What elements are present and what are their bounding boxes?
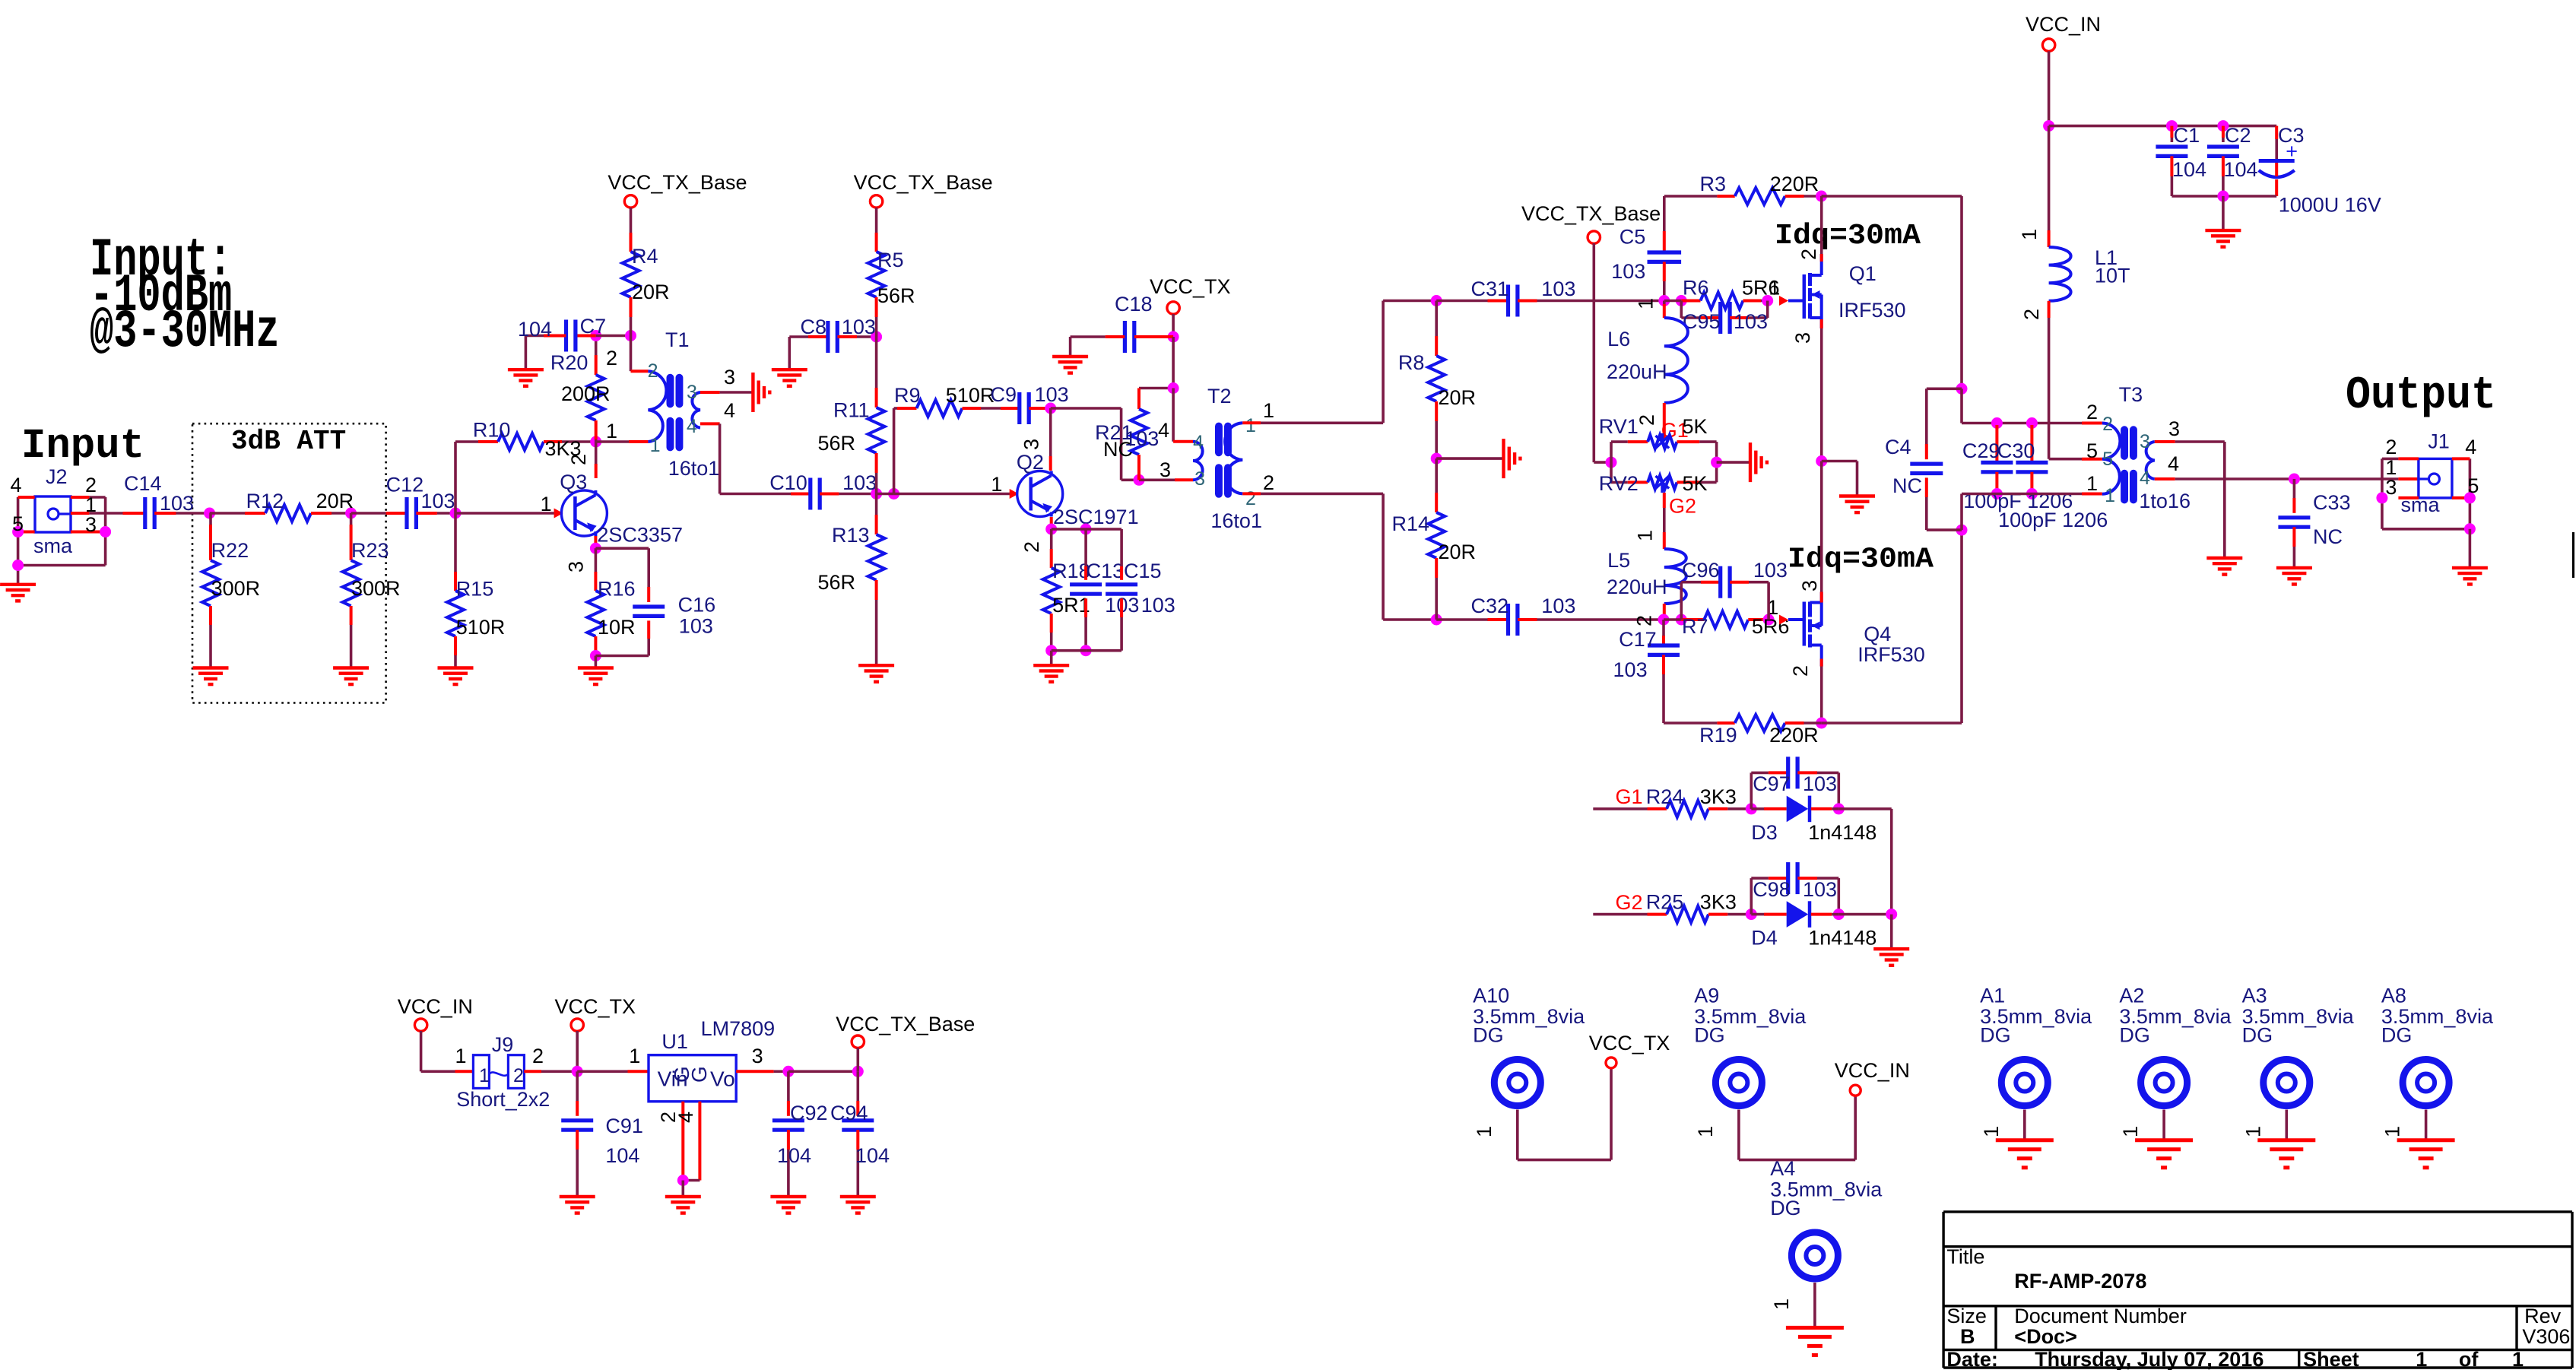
svg-text:T3: T3 [2119, 383, 2143, 406]
svg-text:RV1: RV1 [1599, 415, 1639, 438]
svg-text:J9: J9 [492, 1033, 514, 1056]
svg-text:Idq=30mA: Idq=30mA [1775, 220, 1921, 252]
svg-text:R16: R16 [598, 578, 636, 601]
svg-text:1: 1 [2381, 1126, 2404, 1137]
svg-text:1: 1 [1635, 298, 1658, 309]
svg-text:VCC_TX: VCC_TX [1150, 275, 1231, 298]
svg-text:G2: G2 [1616, 891, 1643, 914]
svg-text:300R: 300R [351, 577, 401, 600]
svg-text:1: 1 [2512, 1348, 2524, 1370]
svg-text:1: 1 [2105, 485, 2115, 506]
svg-text:2: 2 [648, 360, 658, 382]
svg-text:220uH: 220uH [1607, 576, 1667, 598]
svg-text:C15: C15 [1124, 560, 1162, 582]
svg-text:56R: 56R [877, 284, 915, 307]
svg-text:2SC3357: 2SC3357 [597, 523, 683, 546]
svg-text:1: 1 [1980, 1126, 2003, 1137]
svg-text:1: 1 [1263, 399, 1274, 422]
svg-text:C8: C8 [800, 316, 826, 338]
svg-text:103: 103 [1734, 310, 1768, 333]
svg-text:100pF 1206: 100pF 1206 [1998, 509, 2108, 531]
svg-text:4: 4 [1158, 419, 1169, 442]
svg-text:16to1: 16to1 [1210, 509, 1262, 532]
svg-text:103: 103 [1611, 260, 1645, 283]
svg-text:G: G [687, 1066, 711, 1083]
svg-text:5: 5 [2102, 449, 2113, 470]
svg-text:R24: R24 [1646, 785, 1684, 808]
svg-text:1: 1 [1633, 530, 1656, 541]
svg-text:R10: R10 [473, 419, 511, 442]
svg-text:A9: A9 [1694, 985, 1719, 1007]
svg-text:R8: R8 [1398, 351, 1425, 374]
svg-text:VCC_TX: VCC_TX [1589, 1032, 1670, 1054]
svg-text:103: 103 [1613, 658, 1648, 681]
svg-text:R4: R4 [632, 245, 658, 268]
svg-text:1: 1 [629, 1045, 640, 1067]
svg-text:510R: 510R [946, 384, 995, 407]
svg-text:2: 2 [1789, 665, 1812, 677]
svg-text:C16: C16 [678, 594, 716, 617]
svg-text:4: 4 [10, 474, 21, 496]
svg-text:C32: C32 [1471, 595, 1509, 617]
svg-text:C31: C31 [1471, 277, 1509, 300]
svg-text:4: 4 [674, 1112, 697, 1123]
svg-text:@3-30MHz: @3-30MHz [90, 301, 280, 363]
svg-text:A1: A1 [1980, 985, 2005, 1007]
svg-text:VCC_IN: VCC_IN [398, 995, 473, 1018]
svg-text:104: 104 [777, 1144, 811, 1167]
svg-text:J2: J2 [46, 465, 68, 488]
svg-text:VCC_IN: VCC_IN [2026, 13, 2101, 36]
svg-text:20R: 20R [1439, 386, 1477, 409]
svg-text:LM7809: LM7809 [701, 1017, 776, 1040]
svg-text:Size: Size [1946, 1305, 1987, 1327]
svg-text:3: 3 [1020, 439, 1043, 450]
svg-text:220uH: 220uH [1607, 360, 1667, 383]
svg-text:Output: Output [2346, 370, 2496, 422]
svg-text:4: 4 [1193, 432, 1204, 453]
svg-text:104: 104 [2224, 158, 2258, 181]
svg-text:4: 4 [2168, 452, 2179, 475]
svg-text:T1: T1 [665, 328, 690, 351]
svg-text:300R: 300R [211, 577, 261, 600]
svg-text:T2: T2 [1207, 385, 1232, 408]
svg-text:Q1: Q1 [1849, 262, 1876, 285]
svg-text:G2: G2 [1669, 495, 1696, 518]
svg-text:103: 103 [1125, 427, 1159, 450]
svg-text:103: 103 [1141, 594, 1175, 617]
svg-text:103: 103 [1803, 772, 1837, 795]
svg-text:20R: 20R [632, 281, 670, 303]
svg-text:3: 3 [2168, 417, 2180, 440]
svg-text:A4: A4 [1770, 1157, 1795, 1180]
svg-text:A10: A10 [1473, 985, 1509, 1007]
svg-text:1: 1 [2416, 1348, 2427, 1370]
svg-text:3: 3 [85, 513, 97, 536]
svg-text:103: 103 [421, 490, 455, 512]
svg-text:3K3: 3K3 [1700, 891, 1737, 914]
svg-text:VCC_TX_Base: VCC_TX_Base [1521, 202, 1661, 225]
svg-text:3: 3 [724, 366, 735, 388]
svg-text:2: 2 [1797, 249, 1820, 260]
svg-text:5: 5 [2467, 474, 2479, 497]
svg-text:C94: C94 [830, 1102, 868, 1124]
svg-text:R7: R7 [1682, 615, 1708, 638]
svg-text:1000U 16V: 1000U 16V [2279, 194, 2381, 217]
svg-text:C9: C9 [990, 383, 1017, 406]
svg-text:Short_2x2: Short_2x2 [456, 1088, 550, 1111]
svg-text:R23: R23 [351, 539, 389, 562]
svg-text:2: 2 [532, 1045, 544, 1067]
svg-text:C30: C30 [1997, 439, 2035, 462]
svg-text:NC: NC [1892, 474, 1922, 497]
svg-text:10T: 10T [2095, 265, 2130, 287]
svg-text:3: 3 [1798, 580, 1821, 591]
svg-text:R5: R5 [877, 249, 904, 271]
svg-text:1: 1 [991, 473, 1002, 496]
svg-text:2: 2 [567, 454, 590, 465]
svg-text:200R: 200R [561, 382, 611, 405]
svg-text:1: 1 [541, 493, 552, 515]
svg-text:J1: J1 [2428, 430, 2450, 453]
svg-text:NC: NC [2313, 525, 2343, 548]
svg-text:103: 103 [679, 615, 713, 638]
svg-text:2SC1971: 2SC1971 [1053, 506, 1139, 528]
svg-text:C4: C4 [1885, 436, 1911, 458]
svg-text:103: 103 [1803, 878, 1837, 901]
svg-text:Title: Title [1946, 1245, 1984, 1268]
svg-text:3: 3 [687, 382, 697, 403]
svg-text:4: 4 [2465, 436, 2476, 458]
svg-text:Rev: Rev [2524, 1305, 2562, 1327]
svg-text:DG: DG [2119, 1024, 2150, 1047]
svg-text:A3: A3 [2242, 985, 2267, 1007]
svg-text:B: B [1960, 1325, 1975, 1348]
svg-text:1n4148: 1n4148 [1808, 821, 1876, 844]
svg-text:1: 1 [2119, 1126, 2142, 1137]
svg-text:1: 1 [2241, 1126, 2264, 1137]
svg-text:VCC_TX_Base: VCC_TX_Base [836, 1013, 975, 1035]
svg-text:RV2: RV2 [1599, 472, 1639, 495]
svg-text:R9: R9 [894, 384, 921, 407]
svg-text:C98: C98 [1753, 878, 1791, 901]
svg-text:DG: DG [1473, 1024, 1504, 1047]
svg-text:3: 3 [2385, 476, 2397, 499]
svg-text:R22: R22 [211, 539, 249, 562]
svg-text:DG: DG [1770, 1197, 1801, 1219]
svg-text:VCC_TX_Base: VCC_TX_Base [608, 171, 747, 194]
svg-text:220R: 220R [1769, 724, 1819, 747]
svg-text:2: 2 [1633, 615, 1656, 626]
svg-text:1: 1 [1694, 1126, 1717, 1137]
svg-text:103: 103 [842, 316, 876, 338]
svg-text:2: 2 [2102, 414, 2113, 435]
svg-text:3: 3 [1160, 458, 1171, 481]
svg-text:R3: R3 [1700, 173, 1727, 195]
svg-text:IRF530: IRF530 [1857, 643, 1925, 666]
svg-text:103: 103 [1541, 277, 1575, 300]
svg-text:3: 3 [752, 1045, 763, 1067]
svg-text:Document Number: Document Number [2014, 1305, 2187, 1327]
svg-text:2: 2 [1245, 488, 1256, 509]
svg-text:1: 1 [1770, 1299, 1793, 1310]
svg-text:1: 1 [1245, 415, 1256, 436]
svg-text:Sheet: Sheet [2303, 1348, 2359, 1370]
svg-text:1: 1 [1473, 1126, 1496, 1137]
svg-text:104: 104 [518, 318, 552, 341]
svg-text:103: 103 [1035, 383, 1069, 406]
svg-text:1: 1 [650, 435, 661, 456]
svg-text:A8: A8 [2381, 985, 2406, 1007]
svg-text:2: 2 [1635, 414, 1658, 426]
svg-text:C14: C14 [124, 472, 162, 495]
svg-text:5: 5 [12, 512, 24, 535]
svg-text:Vo: Vo [710, 1067, 735, 1091]
svg-text:3dB ATT: 3dB ATT [231, 426, 346, 457]
svg-text:C3: C3 [2278, 124, 2305, 147]
svg-text:2: 2 [2086, 401, 2098, 423]
svg-text:104: 104 [855, 1144, 890, 1167]
svg-text:C13: C13 [1087, 560, 1125, 582]
svg-text:2: 2 [1020, 541, 1043, 553]
svg-text:G1: G1 [1616, 785, 1643, 808]
svg-text:C1: C1 [2174, 124, 2200, 147]
svg-text:56R: 56R [817, 432, 855, 455]
svg-text:103: 103 [1541, 595, 1575, 617]
svg-text:1: 1 [479, 1065, 490, 1086]
svg-text:104: 104 [2172, 158, 2206, 181]
svg-text:R15: R15 [456, 578, 494, 601]
svg-text:1: 1 [455, 1045, 467, 1067]
svg-text:4: 4 [687, 416, 697, 437]
svg-text:103: 103 [842, 471, 877, 494]
svg-text:2: 2 [1263, 471, 1274, 494]
svg-text:R19: R19 [1699, 724, 1737, 747]
svg-text:5K: 5K [1683, 472, 1708, 495]
svg-text:20R: 20R [1439, 541, 1477, 563]
svg-text:Thursday, July 07, 2016: Thursday, July 07, 2016 [2035, 1348, 2264, 1370]
svg-text:56R: 56R [817, 571, 855, 594]
svg-text:Input: Input [21, 423, 144, 471]
svg-text:5K: 5K [1683, 415, 1708, 438]
svg-text:D3: D3 [1751, 821, 1778, 844]
svg-text:3: 3 [2140, 431, 2150, 452]
svg-text:3: 3 [565, 561, 588, 572]
svg-text:DG: DG [2381, 1024, 2413, 1047]
svg-text:RF-AMP-2078: RF-AMP-2078 [2014, 1270, 2146, 1292]
svg-text:VCC_TX_Base: VCC_TX_Base [854, 171, 993, 194]
svg-text:R25: R25 [1646, 891, 1684, 914]
svg-text:V306: V306 [2522, 1325, 2570, 1348]
svg-text:4: 4 [724, 399, 735, 422]
svg-text:2: 2 [513, 1065, 524, 1086]
svg-text:R6: R6 [1683, 277, 1709, 300]
svg-text:IRF530: IRF530 [1838, 299, 1906, 322]
svg-text:C10: C10 [769, 471, 807, 494]
svg-text:3: 3 [1791, 332, 1814, 344]
svg-text:1to16: 1to16 [2139, 490, 2191, 512]
svg-text:U1: U1 [661, 1030, 688, 1053]
svg-text:3: 3 [1194, 468, 1205, 490]
svg-text:Q3: Q3 [560, 471, 587, 493]
svg-text:L5: L5 [1607, 549, 1630, 572]
svg-text:R14: R14 [1391, 512, 1429, 535]
svg-text:104: 104 [605, 1144, 639, 1167]
svg-text:1: 1 [1769, 277, 1780, 300]
svg-text:VCC_TX: VCC_TX [555, 995, 636, 1018]
svg-text:20R: 20R [316, 490, 354, 512]
svg-text:R12: R12 [246, 490, 284, 512]
svg-text:Date:: Date: [1946, 1348, 1998, 1370]
svg-text:3K3: 3K3 [1700, 785, 1737, 808]
svg-text:C7: C7 [580, 315, 607, 338]
svg-text:1: 1 [606, 420, 617, 442]
svg-text:R13: R13 [832, 524, 870, 547]
svg-text:1: 1 [2086, 472, 2098, 495]
svg-text:C29: C29 [1962, 439, 2000, 462]
svg-text:C92: C92 [790, 1102, 828, 1124]
svg-text:A2: A2 [2119, 985, 2144, 1007]
svg-text:Q2: Q2 [1017, 451, 1044, 474]
svg-text:Q4: Q4 [1864, 623, 1891, 645]
svg-text:C2: C2 [2225, 124, 2251, 147]
svg-text:2: 2 [606, 347, 617, 369]
svg-text:R11: R11 [833, 398, 870, 421]
svg-text:C97: C97 [1753, 772, 1791, 795]
svg-text:C12: C12 [386, 474, 424, 496]
svg-text:C96: C96 [1682, 559, 1720, 582]
svg-text:1n4148: 1n4148 [1808, 927, 1876, 950]
svg-text:C17: C17 [1619, 628, 1657, 651]
svg-text:2: 2 [2385, 436, 2397, 458]
svg-text:sma: sma [33, 534, 73, 557]
svg-text:C33: C33 [2313, 491, 2351, 514]
svg-text:103: 103 [160, 492, 194, 515]
svg-text:16to1: 16to1 [668, 457, 720, 480]
svg-text:C91: C91 [605, 1115, 643, 1137]
svg-text:DG: DG [2242, 1024, 2273, 1047]
svg-text:VCC_IN: VCC_IN [1835, 1059, 1910, 1082]
svg-text:1: 1 [2018, 229, 2041, 240]
svg-text:2: 2 [2020, 309, 2043, 320]
svg-text:of: of [2459, 1348, 2479, 1370]
svg-text:510R: 510R [456, 616, 506, 639]
svg-text:sma: sma [2401, 493, 2441, 516]
svg-text:103: 103 [1753, 559, 1788, 582]
svg-text:<Doc>: <Doc> [2014, 1325, 2077, 1348]
svg-text:Idq=30mA: Idq=30mA [1788, 543, 1934, 576]
svg-text:C18: C18 [1115, 293, 1153, 316]
svg-text:DG: DG [1694, 1024, 1725, 1047]
svg-text:L6: L6 [1607, 328, 1630, 350]
svg-text:R20: R20 [550, 351, 588, 374]
svg-text:DG: DG [1980, 1024, 2011, 1047]
svg-text:220R: 220R [1770, 173, 1819, 195]
svg-text:4: 4 [2140, 468, 2150, 489]
svg-text:10R: 10R [598, 616, 636, 639]
svg-text:C5: C5 [1620, 226, 1646, 249]
svg-text:D4: D4 [1751, 927, 1778, 950]
